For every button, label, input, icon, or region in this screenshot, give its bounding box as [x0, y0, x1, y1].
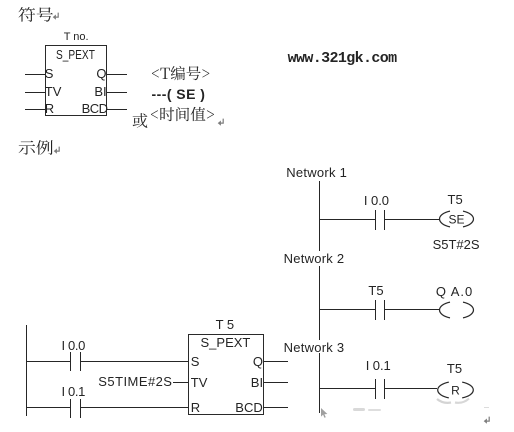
faint watermark smudge 1b — [368, 409, 381, 412]
contact net1 bar2 — [384, 210, 385, 231]
U2 pin label S — [191, 354, 200, 369]
U2 pin label Q — [253, 354, 263, 369]
contact net1 bar1 — [375, 210, 376, 231]
label T no. — [64, 31, 89, 43]
wire net1: contact to coil — [385, 219, 439, 220]
paragraph return mark after 符号 — [52, 12, 60, 21]
U1 pin label Q — [96, 66, 106, 81]
faint watermark smudge 2 — [435, 396, 473, 406]
U2 pin label BI — [251, 375, 263, 390]
wire U1 S input stub — [25, 74, 44, 75]
label T5 (net1 coil) — [448, 192, 463, 207]
contact net2 bar2 — [384, 300, 385, 321]
label Network 1 — [286, 165, 347, 180]
paragraph return mark after <时间值> — [217, 118, 225, 127]
label <时间值> — [150, 107, 214, 123]
contact net2 bar1 — [375, 300, 376, 321]
wire net1: rail to contact — [319, 219, 375, 220]
U2 pin label BCD — [235, 400, 262, 415]
wire S5TIME#2S to TV pin — [173, 382, 189, 383]
label I0.1 (net3) — [366, 358, 391, 373]
wire rung1: rail to contact — [26, 361, 70, 362]
U1 pin label S — [45, 66, 54, 81]
label Network 3 — [284, 340, 345, 355]
wire net3: rail to contact — [319, 388, 375, 389]
network3 power rail — [319, 353, 320, 413]
label Q A.0 — [436, 284, 473, 299]
svg-text:SE: SE — [448, 212, 464, 226]
contact I0.0 bar1 — [70, 352, 71, 371]
wire U1 R input stub — [25, 109, 44, 110]
label T 5 (example box) — [216, 317, 235, 332]
paragraph return mark bottom right — [483, 416, 491, 425]
wire U1 BI output stub — [107, 92, 127, 93]
label S5TIME#2S — [98, 374, 172, 389]
coil (R) — [437, 381, 474, 399]
timer box U1 S_PEXT (symbol) — [45, 45, 108, 116]
wire rung2: contact to R pin — [81, 407, 188, 408]
coil ( ) net2 — [439, 301, 474, 319]
U2 title S_PEXT — [201, 335, 251, 350]
label I0.0 (example rung 1) — [62, 338, 86, 353]
label T5 (net3 coil) — [447, 361, 462, 376]
gray cursor arrow at rail bottom — [320, 408, 329, 419]
contact net3 bar2 — [384, 379, 385, 400]
U1 pin label BI — [94, 84, 106, 99]
contact I0.0 bar2 — [80, 352, 81, 371]
contact net3 bar1 — [375, 379, 376, 400]
wire net2: contact to coil — [385, 309, 439, 310]
label T5 (net2 contact) — [368, 283, 383, 298]
contact I0.1 bar1 — [70, 399, 71, 418]
wire U2 Q output stub — [264, 361, 289, 362]
U1 pin label TV — [45, 84, 62, 99]
U1 title S_PEXT — [56, 47, 95, 62]
left power rail — [26, 325, 27, 416]
U2 pin label TV — [191, 375, 208, 390]
wire rung2: rail to contact — [26, 407, 70, 408]
contact I0.1 bar2 — [80, 399, 81, 418]
label 符号 (Symbol heading) — [18, 6, 54, 23]
label ---( SE ) — [152, 86, 206, 102]
wire U1 Q output stub — [107, 74, 127, 75]
wire rung1: contact to S pin — [81, 361, 188, 362]
wire U1 TV input stub — [25, 92, 44, 93]
wire net2: rail to contact — [319, 309, 375, 310]
U1 pin label BCD — [82, 101, 108, 116]
faint watermark smudge 1 — [353, 408, 365, 411]
network2 power rail — [319, 266, 320, 340]
label 示例 (Example heading) — [18, 139, 54, 156]
timer box U2 S_PEXT (example) — [188, 334, 264, 415]
wire U2 BCD output stub — [264, 407, 289, 408]
label Network 2 — [284, 251, 345, 266]
wire U2 BI output stub — [264, 382, 289, 383]
faint watermark dash 3 — [484, 407, 489, 409]
label I0.0 (net1) — [364, 193, 389, 208]
U1 pin label R — [45, 101, 54, 116]
paragraph return mark after 示例 — [53, 146, 61, 155]
svg-text:R: R — [451, 383, 460, 397]
U2 pin label R — [191, 400, 200, 415]
watermark text www.321gk.com — [288, 50, 397, 67]
network1 power rail — [319, 181, 320, 251]
wire net3: contact to coil — [385, 388, 437, 389]
label <T编号> — [151, 66, 209, 82]
label S5T#2S — [433, 237, 480, 252]
label 或 (or) — [132, 112, 149, 129]
wire U1 BCD output stub — [107, 109, 127, 110]
label I0.1 (example rung 2) — [62, 384, 86, 399]
coil (SE) — [439, 210, 474, 228]
